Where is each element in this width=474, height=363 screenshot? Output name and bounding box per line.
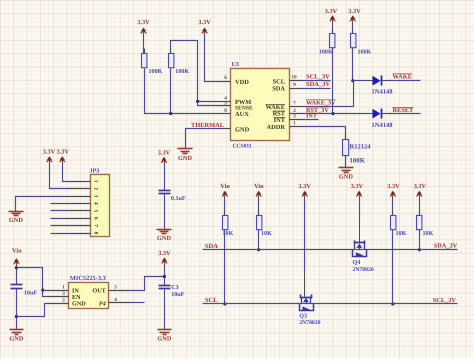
svg-text:Q4: Q4 [353,259,361,266]
wire OUT to 3.3V node [132,277,165,291]
wire R1 bottom to AUX rail [145,69,221,114]
power port 3.3V (R9) [414,183,427,197]
wire 3.3V to C3 [164,265,166,286]
wire C3 to ground [164,289,166,329]
svg-text:4: 4 [114,297,117,303]
ground (C3) [157,329,171,343]
connector JP3 body [90,168,110,237]
svg-text:RESET: RESET [393,107,414,114]
power port 3.3V (JP3 pin1) [56,149,69,164]
svg-text:3.3V: 3.3V [158,149,171,156]
pin 2 RST [290,108,300,114]
power port 3.3V (Q4 gate) [351,183,364,197]
junction R9-SDA [418,248,421,251]
pin 6 VDD [221,75,231,81]
wire JP3 pin7 stub [51,225,69,227]
wire WAKE_3V [300,81,354,107]
svg-text:3.3V: 3.3V [298,183,311,190]
svg-text:GND: GND [72,301,86,308]
svg-text:2N70020: 2N70020 [299,320,320,326]
ground (thermal) [178,148,193,162]
power port Vin (R7) [254,183,264,197]
svg-text:3.3V: 3.3V [387,183,400,190]
junction WAKE node [351,79,354,82]
svg-text:SDA: SDA [205,243,218,250]
net label SDA [205,243,218,250]
pin 3 EN [47,291,69,297]
svg-text:WAKE_3V: WAKE_3V [306,100,336,107]
wire D1 to WAKE port [382,80,421,82]
ground (Vin cap) [9,329,23,343]
wire PWM branch [198,101,221,103]
capacitor C1 10uF [11,285,38,297]
junction R7-SDA [257,248,260,251]
capacitor C2 0.1uF [159,191,186,203]
svg-text:100K: 100K [175,68,189,75]
svg-text:100K: 100K [350,158,366,165]
ground (ADDR) [339,167,354,181]
wire 3.3V to C2 [164,164,166,191]
net label THERMAL [191,122,224,129]
svg-text:3: 3 [62,291,65,297]
net label SCL_3V right [433,297,457,304]
svg-text:5: 5 [114,284,117,290]
pin 1 IN [47,284,69,290]
svg-text:10uF: 10uF [171,291,184,298]
svg-text:GND: GND [9,336,23,343]
wire R6 to SCL [224,230,226,304]
wire 3.3V to R3 [332,23,334,34]
svg-text:3: 3 [92,195,98,198]
svg-text:SDA: SDA [272,86,285,93]
svg-text:9: 9 [293,82,296,88]
svg-text:SCL_3V: SCL_3V [433,297,457,304]
transistor Q4 2N70020 [353,241,374,273]
svg-text:10K: 10K [261,230,272,237]
wire D2 to RESET port [382,113,421,115]
pin 4 PWM [221,95,231,101]
power port 3.3V (JP3 pin2) [43,149,56,164]
net label RST_3V [306,107,329,114]
pin 1 ADDR [290,121,300,127]
svg-text:3.3V: 3.3V [56,149,69,156]
junction R8-SCL [391,302,394,305]
wire C2 to ground [164,194,166,228]
power port 3.3V (R1) [137,19,150,34]
ground (JP3) [9,210,24,225]
wire JP3 pin4 stub [51,203,69,205]
power port 3.3V (Q3 gate) [298,183,311,197]
wire R7 to SDA [258,230,260,250]
svg-text:GND: GND [157,235,171,242]
wire JP3 pin3 to ground [16,197,69,210]
wire Vin to R7 [258,198,260,216]
wire JP3 pin5 stub [51,210,69,212]
svg-text:10: 10 [291,75,297,81]
wire 3.3V to R1 [143,35,145,54]
svg-text:SDA_3V: SDA_3V [306,81,331,88]
svg-text:AUX: AUX [235,111,249,118]
wire R9 to SDA [419,230,421,250]
JP3 pin stubs [69,182,91,234]
pin 3 INT [290,114,300,120]
wire pin4 stub [132,302,145,304]
wire R2 top to PWM/SENSE [171,41,221,106]
svg-text:WAKE: WAKE [393,74,413,81]
wire ADDR to R5 [300,127,346,140]
pin GND stub [221,128,231,130]
svg-text:Vin: Vin [220,183,230,190]
svg-text:3.3V: 3.3V [158,250,171,257]
svg-text:2: 2 [92,187,98,190]
svg-text:6: 6 [224,75,227,81]
svg-text:3.3V: 3.3V [351,183,364,190]
svg-text:1: 1 [62,284,65,290]
junction IN node [41,289,44,292]
power port 3.3V (R3) [325,8,338,23]
svg-text:Vin: Vin [12,248,22,255]
wire IN branch [43,290,47,292]
resistor R5 R12124 [343,135,372,165]
pin 8 AUX [221,108,231,114]
wire JP3 pin1 to 3.3V [63,164,69,182]
svg-text:SDA_3V: SDA_3V [434,243,458,250]
capacitor C3 10uF [159,284,185,298]
svg-text:INT: INT [306,113,318,120]
svg-text:MIC5225-3.3: MIC5225-3.3 [70,275,106,282]
resistor R7 10K [257,211,273,238]
svg-text:GND: GND [178,155,192,162]
svg-text:1N4148: 1N4148 [372,89,394,96]
power port 3.3V (C2) [158,149,171,164]
svg-text:7: 7 [92,224,98,227]
net label RESET [393,107,414,114]
resistor R8 10K [391,211,407,238]
power port 3.3V (out) [158,250,171,265]
svg-text:7: 7 [293,101,296,107]
pin 10 SCL [290,75,300,81]
svg-text:5: 5 [92,209,98,212]
transistor Q3 2N70020 [299,295,320,327]
wire R8 to SCL [392,230,394,304]
power port Vin [12,248,22,266]
svg-text:Vin: Vin [254,183,264,190]
svg-text:10K: 10K [423,230,434,237]
power port Vin (R6) [220,183,230,197]
wire JP3 pin8 stub [51,233,69,235]
svg-text:10K: 10K [396,230,407,237]
svg-text:5: 5 [224,101,227,107]
net label SCL [205,297,218,304]
svg-text:3.3V: 3.3V [348,8,361,15]
resistor R6 10K [223,211,234,238]
pin 9 SDA [290,82,300,88]
svg-text:3.3V: 3.3V [325,8,338,15]
junction gnd branch [15,315,18,318]
resistor R2 100K [169,49,190,76]
wire R3 to RST node [332,48,334,114]
svg-text:1: 1 [293,121,296,127]
wire SCL_3V [300,80,331,82]
svg-text:100K: 100K [149,68,163,75]
pin 4 [109,297,132,303]
wire INT [300,119,319,121]
wire Vin to IN/EN [17,268,47,297]
wire Vin rail [16,266,18,285]
svg-text:3.3V: 3.3V [414,183,427,190]
wire 3.3V to R4 [352,23,354,34]
wire R2 bottom to AUX rail [170,69,172,114]
svg-text:GND: GND [157,336,171,343]
wire Vin to R6 [224,198,226,216]
wire C1 to ground rail [16,289,18,329]
svg-text:SCL_3V: SCL_3V [306,74,330,81]
svg-text:0.1uF: 0.1uF [171,195,186,202]
svg-text:Q3: Q3 [299,313,307,320]
wire 3.3V to Q4 gate [359,198,361,243]
pin 5 OUT [109,284,132,290]
svg-text:R12124: R12124 [350,144,372,151]
resistor R3 100K [319,29,335,56]
junction R6-SCL [223,302,226,305]
svg-text:GND: GND [9,217,23,224]
svg-text:CCS811: CCS811 [233,144,252,150]
wire R4 to WAKE node [352,48,354,81]
svg-text:GND: GND [339,174,353,181]
svg-text:3.3V: 3.3V [137,19,150,26]
wire 3.3V to Q3 gate [304,198,306,297]
svg-text:SCL: SCL [273,78,285,85]
op-amp U3 CCS811 body [231,62,290,150]
svg-text:6: 6 [92,217,98,220]
svg-text:P4: P4 [99,301,106,308]
wire JP3 pin6 stub [51,218,69,220]
ground (C2) [157,228,172,243]
junction OUT node [163,275,166,278]
wire 3.3V to VDD pin [205,35,221,82]
net label INT [306,113,318,120]
wire 3.3V to R9 [419,198,421,216]
svg-text:JP3: JP3 [90,168,100,175]
junction Vin branch [15,266,18,269]
net label WAKE_3V [306,100,336,107]
net label SCL_3V [306,74,330,81]
svg-text:8: 8 [92,232,98,235]
wire RST_3V [300,113,334,115]
svg-text:U3: U3 [232,62,239,68]
wire GND pin to ground [186,129,221,148]
svg-text:THERMAL: THERMAL [191,122,224,129]
svg-text:GND: GND [235,126,250,133]
svg-text:100K: 100K [319,49,333,56]
svg-text:10uF: 10uF [24,290,37,297]
wire 3.3V to R8 [392,198,394,216]
junction AUX node [169,112,172,115]
net label WAKE [393,74,413,81]
svg-text:100K: 100K [358,49,372,56]
svg-text:4: 4 [92,202,98,205]
svg-text:SCL: SCL [205,297,218,304]
net label SDA_3V [306,81,331,88]
junction PWM node [196,100,199,103]
wire SDA_3V [300,88,331,90]
svg-text:8: 8 [224,108,227,114]
svg-text:C3: C3 [171,284,178,291]
junction RST node [331,112,334,115]
resistor R9 10K [417,211,434,238]
svg-text:3.3V: 3.3V [198,19,211,26]
svg-text:1N4148: 1N4148 [372,122,394,129]
diode D2 1N4148 [372,109,394,130]
resistor R4 100K [351,29,372,56]
pin 5 SENSE [221,101,231,107]
power port 3.3V (R4) [348,8,361,23]
pin 7 WAKE [290,101,300,107]
wire JP3 pin2 to 3.3V [50,164,69,189]
svg-text:2N70020: 2N70020 [353,267,374,273]
wire R5 to ground [345,156,347,167]
diode D1 1N4148 [372,76,394,96]
power port 3.3V (R8) [387,183,400,197]
net label SDA_3V right [434,243,458,250]
power port 3.3V (VDD) [198,19,211,34]
svg-text:3: 3 [293,114,296,120]
svg-text:1: 1 [92,180,98,183]
regulator U2 MIC5225-3.3 body [69,275,109,308]
svg-text:3.3V: 3.3V [43,149,56,156]
wire WAKE node to D1 [353,80,373,82]
svg-text:VDD: VDD [235,79,249,86]
resistor R1 100K [142,49,163,76]
wire RST node to D2 [334,113,373,115]
svg-text:ADDR: ADDR [267,124,286,131]
svg-text:OUT: OUT [92,288,106,295]
wire SCL bus [203,303,458,305]
pin 2 GND [47,297,69,303]
svg-text:2: 2 [62,297,65,303]
wire regulator GND pin [17,304,47,317]
wire SDA bus [203,249,458,251]
